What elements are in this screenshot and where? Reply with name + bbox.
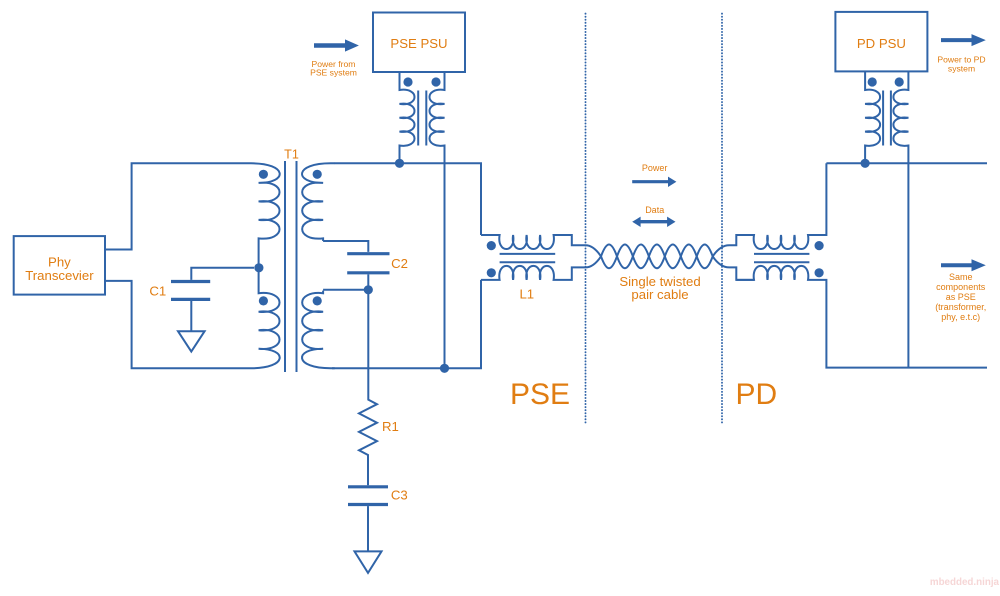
svg-text:Same: Same: [949, 272, 973, 282]
svg-text:components: components: [936, 282, 986, 292]
svg-text:C1: C1: [149, 283, 166, 298]
svg-text:PSE system: PSE system: [310, 67, 357, 77]
svg-text:as PSE: as PSE: [946, 292, 976, 302]
svg-text:Transcevier: Transcevier: [25, 268, 94, 283]
svg-text:system: system: [948, 63, 975, 73]
svg-text:PSE PSU: PSE PSU: [390, 36, 447, 51]
svg-text:PD PSU: PD PSU: [857, 36, 906, 51]
svg-text:L1: L1: [519, 287, 534, 302]
svg-text:PD: PD: [736, 378, 778, 411]
svg-text:Power: Power: [642, 163, 668, 173]
svg-text:Data: Data: [645, 205, 664, 215]
svg-text:C2: C2: [391, 256, 408, 271]
svg-text:R1: R1: [382, 419, 399, 434]
svg-text:pair cable: pair cable: [631, 287, 688, 302]
svg-text:C3: C3: [391, 488, 408, 503]
svg-text:PSE: PSE: [510, 378, 570, 411]
svg-text:(transformer,: (transformer,: [935, 302, 986, 312]
svg-text:mbedded.ninja: mbedded.ninja: [930, 577, 1000, 588]
svg-text:phy, e.t.c): phy, e.t.c): [941, 312, 980, 322]
svg-text:T1: T1: [284, 148, 299, 162]
